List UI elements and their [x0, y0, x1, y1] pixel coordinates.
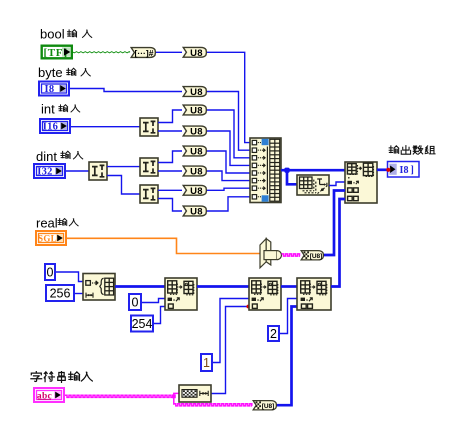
constant 1: [201, 354, 212, 371]
node Split Number (int): [140, 118, 158, 136]
wire bool array (green) TF to BoolArrayToNum: [71, 52, 130, 53]
wire U8 dint b3 to build array row 5: [207, 151, 250, 173]
svg-text:U8: U8: [190, 127, 203, 138]
svg-text:U8: U8: [190, 167, 203, 178]
wire const0b to replace1: [142, 299, 165, 303]
svg-text:254: 254: [132, 317, 153, 331]
label string input: [31, 372, 42, 382]
wire int I16 to split: [71, 126, 140, 128]
svg-text:[···]#: [···]#: [135, 48, 154, 58]
wire const1 to replace2: [213, 299, 249, 363]
wire U8 byte to build array row 2: [207, 92, 250, 151]
svg-text:U8: U8: [190, 87, 203, 98]
svg-text:0: 0: [47, 266, 54, 280]
wire split1 lo to split3: [107, 176, 140, 195]
svg-text:I8: I8: [45, 84, 55, 95]
wire int split lo to U8: [158, 130, 182, 132]
svg-text:U8: U8: [190, 207, 203, 218]
wire split2 lo to U8: [158, 170, 182, 172]
wire U8 int lo to build array row 4: [207, 131, 250, 165]
constant 2: [268, 326, 279, 341]
wire U8 dint b0 to build array row 8: [207, 197, 250, 211]
conversion bullet U8 #1 (bool): [183, 47, 206, 57]
node Threshold/Search 1D Array: [297, 175, 329, 195]
svg-text:int: int: [41, 102, 55, 117]
terminal dint input I32 control: [34, 164, 65, 178]
node String Length: [179, 385, 211, 402]
wire const2 to replace3: [280, 299, 297, 334]
svg-text:0: 0: [132, 296, 139, 310]
conversion bullet U8 #2 (byte): [183, 87, 206, 97]
wire junction to string-to-byte-array: [173, 396, 175, 405]
svg-text:[U8]: [U8]: [310, 253, 323, 260]
indicator output array [I8]: [388, 162, 420, 178]
svg-text:I16: I16: [43, 122, 59, 133]
coercion dot replace2: [246, 305, 250, 309]
svg-text:abc: abc: [37, 392, 52, 402]
wire split3 lo to U8: [158, 199, 182, 212]
node Initialize Array: [83, 274, 115, 301]
svg-text:2: 2: [270, 327, 277, 341]
label output array: [389, 146, 399, 154]
node Replace Array Subset #3: [297, 278, 331, 310]
constant 0 (element): [45, 264, 55, 280]
node Replace Array Subset #2: [249, 278, 281, 310]
node Split Number (dint): [89, 162, 107, 180]
wire U8 dint b2 to build array row 6: [207, 171, 250, 181]
node String To Byte Array (string path): [253, 401, 276, 410]
node Boolean Array To Number: [131, 48, 155, 58]
wire replace3 up to big replace input: [331, 199, 345, 287]
node Build Array: [250, 138, 281, 203]
wire 0 to initialize array: [56, 272, 83, 282]
svg-text:dint: dint: [36, 149, 57, 164]
svg-text:U8: U8: [190, 147, 203, 158]
conversion bullet U8 #5 (dint b3): [183, 146, 206, 156]
svg-text:I8: I8: [400, 165, 409, 176]
wire replace1 to replace2: [197, 285, 249, 288]
wire flatten to string-to-byte-array (pink): [282, 254, 301, 256]
conversion bullet U8 #8 (dint b0): [183, 206, 206, 216]
wire U8 int hi to build array row 3: [207, 110, 250, 158]
constant 256 (size): [46, 285, 74, 301]
svg-text:SGL: SGL: [38, 234, 57, 244]
constant 254: [131, 316, 153, 332]
svg-text:U8: U8: [190, 48, 203, 59]
wire string length to replace2: [211, 307, 249, 394]
conversion bullet U8 #3 (int hi): [183, 105, 206, 115]
wire junction down to array-minmax node: [287, 170, 297, 184]
wire const254 to replace1: [154, 307, 165, 324]
node Replace Array Subset (output stage): [345, 162, 377, 203]
svg-text:I32: I32: [37, 167, 53, 178]
terminal string input abc control: [34, 388, 64, 402]
terminal byte input I8 control: [39, 82, 69, 96]
svg-text:byte: byte: [38, 65, 63, 80]
coercion dot at indicator: [386, 168, 390, 172]
wire split2 hi to U8: [158, 151, 182, 163]
wire split3 hi to U8: [158, 189, 182, 191]
wire byte I8 to U8 conv: [70, 89, 182, 92]
wire string-to-byte-array up to replace element input: [324, 191, 345, 256]
wire replace2 to replace3: [281, 285, 297, 288]
wire threshold node output to replace node index input: [329, 182, 345, 186]
terminal bool input [TF] control: [42, 46, 72, 59]
svg-text:]: ]: [411, 165, 414, 176]
wire split1 hi to split2: [107, 166, 140, 168]
wire replace output to indicator: [377, 168, 388, 171]
terminal int input I16 control: [40, 119, 70, 133]
svg-text:bool: bool: [40, 27, 65, 42]
node Flatten To String: [260, 239, 266, 268]
wire int split hi to U8: [158, 110, 182, 123]
svg-text:256: 256: [50, 287, 71, 301]
conversion bullet U8 #4 (int lo): [183, 126, 206, 136]
wire U8 dint b1 to build array row 7: [207, 188, 250, 190]
node Split Number (dint lo word): [140, 185, 158, 203]
wire 256 to initialize array: [75, 293, 83, 295]
svg-text:real: real: [36, 216, 58, 231]
conversion bullet U8 #6 (dint b2): [183, 166, 206, 176]
svg-text:U8: U8: [190, 106, 203, 117]
conversion bullet U8 #7 (dint b1): [183, 185, 206, 195]
wire junction to string length: [174, 393, 180, 396]
wire build array output to Replace Array Subset (top): [281, 169, 345, 172]
svg-text:U8: U8: [190, 186, 203, 197]
node Split Number (dint hi word): [140, 158, 158, 176]
wire BoolArrayToNum to U8 conv: [156, 51, 182, 53]
pink junction: [172, 394, 176, 398]
wire initialize array output (main array): [115, 285, 165, 288]
node Replace Array Subset #1: [165, 278, 197, 310]
svg-text:[TF: [TF: [44, 47, 63, 59]
wire U8 bool to build array row 1: [207, 52, 250, 142]
svg-text:1: 1: [203, 356, 210, 370]
wire string byte array to replace3: [277, 307, 297, 406]
terminal real input SGL control: [36, 231, 66, 245]
node String To Byte Array (real path): [301, 251, 323, 260]
wire abc terminal (pink): [65, 395, 174, 397]
svg-text:[U8]: [U8]: [262, 403, 275, 410]
wire SGL to flatten (orange): [67, 238, 262, 253]
wire dint I32 to split1: [66, 170, 89, 172]
constant 0 (index): [129, 294, 141, 310]
junction node on array wire: [284, 168, 289, 173]
